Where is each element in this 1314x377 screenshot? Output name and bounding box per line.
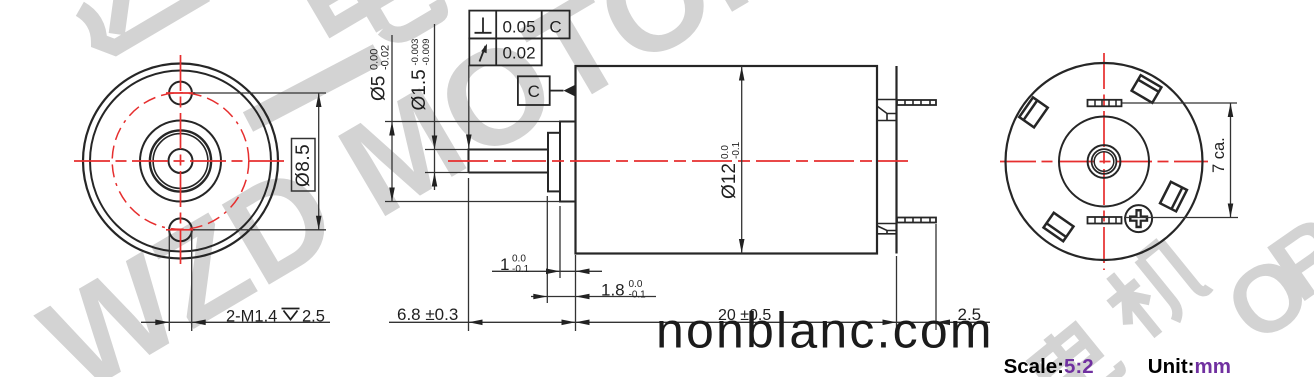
svg-text:Scale:5:2: Scale:5:2 — [1004, 355, 1094, 377]
svg-text:Ø5: Ø5 — [369, 76, 390, 101]
svg-text:0.0: 0.0 — [720, 145, 731, 159]
svg-text:-0.1: -0.1 — [731, 141, 742, 159]
svg-text:2-M1.4: 2-M1.4 — [226, 308, 277, 326]
svg-text:Ø8.5: Ø8.5 — [293, 144, 314, 187]
svg-text:Unit:mm: Unit:mm — [1148, 355, 1231, 377]
svg-text:0.0: 0.0 — [629, 279, 643, 290]
svg-text:-0.02: -0.02 — [380, 45, 392, 70]
svg-text:0.05: 0.05 — [502, 18, 535, 37]
svg-text:-0.009: -0.009 — [421, 39, 432, 66]
svg-text:C: C — [528, 82, 540, 101]
svg-text:1: 1 — [500, 255, 509, 274]
svg-text:6.8 ±0.3: 6.8 ±0.3 — [397, 305, 458, 324]
svg-text:-0.1: -0.1 — [512, 264, 530, 275]
svg-text:nonblanc.com: nonblanc.com — [656, 303, 994, 359]
svg-text:0.0: 0.0 — [512, 254, 526, 265]
svg-text:C: C — [549, 18, 561, 37]
svg-text:-0.1: -0.1 — [629, 290, 647, 301]
svg-text:7 ca.: 7 ca. — [1210, 137, 1228, 173]
svg-text:2.5: 2.5 — [302, 308, 325, 326]
svg-text:-0.003: -0.003 — [410, 39, 421, 66]
svg-text:Ø12: Ø12 — [719, 163, 740, 199]
svg-text:0.02: 0.02 — [502, 44, 535, 63]
svg-text:1.8: 1.8 — [601, 281, 625, 300]
svg-text:Ø1.5: Ø1.5 — [409, 69, 430, 110]
